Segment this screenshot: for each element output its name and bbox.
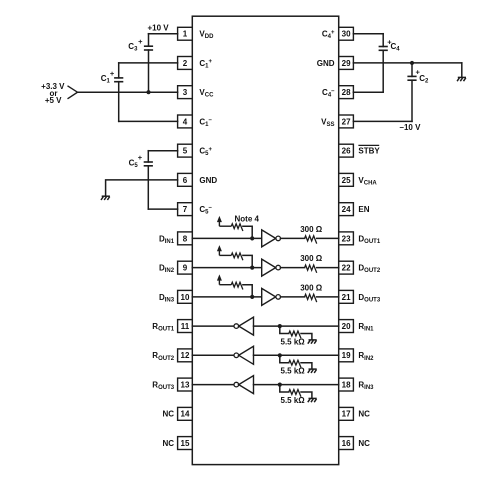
svg-text:DOUT2: DOUT2 xyxy=(358,264,380,275)
svg-text:20: 20 xyxy=(342,322,351,331)
node receiver 2 input junction xyxy=(278,353,282,357)
svg-text:15: 15 xyxy=(181,439,190,448)
svg-text:DOUT3: DOUT3 xyxy=(358,293,380,304)
svg-text:NC: NC xyxy=(163,410,175,419)
svg-text:NC: NC xyxy=(358,410,370,419)
svg-text:25: 25 xyxy=(342,176,351,185)
pull-up resistor (driver 3) xyxy=(219,284,231,286)
svg-text:26: 26 xyxy=(342,147,351,156)
pin 30 box xyxy=(339,27,354,40)
svg-text:RIN2: RIN2 xyxy=(358,351,374,362)
wire inverter output to 300ohm (driver 1) xyxy=(281,237,305,239)
wire inverter output to 300ohm (driver 2) xyxy=(281,267,305,269)
svg-text:4: 4 xyxy=(183,117,188,126)
svg-text:24: 24 xyxy=(342,205,351,214)
capacitor C4 plates xyxy=(379,47,388,51)
svg-text:Note 4: Note 4 xyxy=(235,215,260,224)
receiver buffer 3 xyxy=(234,376,254,394)
svg-text:GND: GND xyxy=(199,176,217,185)
wire R1 output wire pin 11 to bubble xyxy=(192,325,234,327)
svg-text:8: 8 xyxy=(183,234,188,243)
ground receiver 3 ground xyxy=(308,398,317,402)
svg-text:VSS: VSS xyxy=(321,117,334,128)
svg-text:17: 17 xyxy=(342,410,351,419)
svg-text:+: + xyxy=(138,153,143,162)
svg-text:1: 1 xyxy=(183,30,188,39)
pin 10 box xyxy=(178,290,193,303)
wire pin 30 to C4 top xyxy=(353,33,383,35)
wire C3 bottom lead to VCC net xyxy=(148,50,150,92)
pull-up arrow to VDD (driver 2) xyxy=(217,245,222,255)
svg-text:14: 14 xyxy=(181,410,190,419)
wire R2 output wire pin 12 to bubble xyxy=(192,354,234,356)
svg-text:5.5 kΩ: 5.5 kΩ xyxy=(281,396,306,405)
svg-text:+: + xyxy=(138,37,143,46)
svg-text:5: 5 xyxy=(183,147,188,156)
pin 18 box xyxy=(339,378,354,391)
wire C1 bottom lead to pin 4 net xyxy=(118,82,120,122)
svg-text:+10 V: +10 V xyxy=(148,23,170,32)
svg-text:2: 2 xyxy=(183,59,188,68)
wire 5.5k to ground (receiver 2) xyxy=(301,363,312,369)
svg-text:5.5 kΩ: 5.5 kΩ xyxy=(281,367,306,376)
pin 29 box xyxy=(339,57,354,70)
pull-up resistor (driver 2) xyxy=(219,254,231,256)
node driver 3 input junction xyxy=(250,295,254,299)
wire C4 top lead xyxy=(382,34,384,47)
capacitor C5 plates xyxy=(144,162,153,166)
wire pin 27 VSS wire xyxy=(353,120,412,122)
capacitor C2 plates xyxy=(407,76,416,80)
wire junction to 5.5k (receiver 3) xyxy=(280,385,289,392)
resistor 300 ohm (driver 3) xyxy=(305,294,317,302)
wire 300ohm to pin 21 xyxy=(317,296,339,298)
wire VCC supply wire to pin 3 xyxy=(78,91,178,93)
svg-text:13: 13 xyxy=(181,381,190,390)
svg-text:C1+: C1+ xyxy=(199,59,212,70)
wire C5 top lead xyxy=(147,151,149,162)
pin 21 box xyxy=(339,290,354,303)
wire inverter output to 300ohm (driver 3) xyxy=(281,296,305,298)
svg-text:RIN3: RIN3 xyxy=(358,381,374,392)
svg-text:DOUT1: DOUT1 xyxy=(358,234,380,245)
svg-text:VCC: VCC xyxy=(199,88,214,99)
wire C1 bottom to pin 4 xyxy=(119,120,178,122)
svg-text:EN: EN xyxy=(358,205,369,214)
ground receiver 1 ground xyxy=(308,340,317,344)
supply input arrow +3.3V/+5V xyxy=(68,86,78,99)
capacitor C1 label xyxy=(101,69,115,85)
pin 28 box xyxy=(339,86,354,99)
wire 5.5k to ground (receiver 3) xyxy=(301,392,312,398)
svg-text:GND: GND xyxy=(317,59,335,68)
pin 24 box xyxy=(339,203,354,216)
svg-text:18: 18 xyxy=(342,381,351,390)
svg-text:16: 16 xyxy=(342,439,351,448)
svg-text:21: 21 xyxy=(342,293,351,302)
svg-text:DIN1: DIN1 xyxy=(159,234,175,245)
svg-text:22: 22 xyxy=(342,264,351,273)
wire C5 bottom lead to pin 7 net xyxy=(147,166,149,209)
pin 16 box xyxy=(339,437,354,450)
svg-text:23: 23 xyxy=(342,234,351,243)
svg-text:3: 3 xyxy=(183,88,188,97)
wire C2 top lead xyxy=(411,63,413,77)
svg-text:9: 9 xyxy=(183,264,188,273)
wire C5 bottom to pin 7 xyxy=(148,208,177,210)
wire pin 1 to +10V node xyxy=(149,33,178,35)
capacitor C3 plates xyxy=(144,46,153,50)
node receiver 1 input junction xyxy=(278,324,282,328)
pin 11 box xyxy=(178,320,193,333)
pin 14 box xyxy=(178,407,193,420)
wire C4 bottom lead to pin 28 net xyxy=(382,50,384,92)
svg-text:VDD: VDD xyxy=(199,30,214,41)
capacitor C1 plates xyxy=(114,78,123,82)
pin 15 box xyxy=(178,437,193,450)
svg-text:C5–: C5– xyxy=(199,205,212,216)
pin 12 box xyxy=(178,349,193,362)
svg-text:C4–: C4– xyxy=(322,88,335,99)
resistor 5.5 kohm (receiver 1) xyxy=(289,331,301,338)
svg-text:RIN1: RIN1 xyxy=(358,322,374,333)
svg-text:5.5 kΩ: 5.5 kΩ xyxy=(281,337,306,346)
pull-up resistor (driver 1) xyxy=(219,225,231,227)
pin 6 box xyxy=(178,173,193,186)
wire receiver input wire pin 20 xyxy=(254,325,339,327)
svg-text:NC: NC xyxy=(358,439,370,448)
IC body U1 xyxy=(192,16,338,464)
wire junction to 5.5k (receiver 1) xyxy=(280,326,289,333)
inverter driver 1 xyxy=(262,230,281,247)
pin 2 box xyxy=(178,57,193,70)
pin 13 box xyxy=(178,378,193,391)
svg-text:C5+: C5+ xyxy=(199,147,212,158)
pin 26 box xyxy=(339,144,354,157)
capacitor C2 label xyxy=(416,67,429,84)
wire pin 5 to C5 top xyxy=(148,150,177,152)
svg-text:C4: C4 xyxy=(391,42,401,53)
node C3/VCC junction xyxy=(146,90,150,94)
wire junction to 5.5k (receiver 2) xyxy=(280,355,289,362)
inverter driver 3 xyxy=(262,288,281,305)
svg-text:ROUT2: ROUT2 xyxy=(152,351,174,362)
svg-text:+: + xyxy=(110,69,115,78)
capacitor C5 label xyxy=(129,153,143,169)
resistor 300 ohm (driver 2) xyxy=(305,265,317,273)
wire C3 top lead xyxy=(148,34,150,47)
svg-text:+5 V: +5 V xyxy=(45,96,62,105)
svg-text:7: 7 xyxy=(183,205,188,214)
wire receiver input wire pin 19 xyxy=(254,354,339,356)
wire ground drop right xyxy=(461,63,463,77)
pin 26 label STBY (active low) xyxy=(358,145,380,155)
pin 19 box xyxy=(339,349,354,362)
wire R3 output wire pin 13 to bubble xyxy=(192,384,234,386)
svg-text:ROUT1: ROUT1 xyxy=(152,322,174,333)
svg-text:NC: NC xyxy=(163,439,175,448)
wire C1 top lead xyxy=(118,63,120,78)
receiver buffer 1 xyxy=(234,317,254,335)
ground GND right xyxy=(457,77,466,81)
node driver 2 input junction xyxy=(250,266,254,270)
svg-text:300 Ω: 300 Ω xyxy=(300,225,323,234)
svg-text:29: 29 xyxy=(342,59,351,68)
svg-text:12: 12 xyxy=(181,351,190,360)
net label +3.3V or +5V xyxy=(41,82,65,105)
pin 17 box xyxy=(339,407,354,420)
svg-text:19: 19 xyxy=(342,351,351,360)
receiver buffer 2 xyxy=(234,346,254,364)
resistor 5.5 kohm (receiver 2) xyxy=(289,360,301,367)
pin 4 box xyxy=(178,115,193,128)
wire D3 input wire pin 10 to inverter xyxy=(192,296,261,298)
svg-text:C2: C2 xyxy=(419,74,429,85)
inverter driver 2 xyxy=(262,259,281,276)
pin 3 box xyxy=(178,86,193,99)
node C2/GND junction xyxy=(410,61,414,65)
resistor 300 ohm (driver 1) xyxy=(305,236,317,244)
pin 7 box xyxy=(178,203,193,216)
wire 300ohm to pin 22 xyxy=(317,267,339,269)
resistor 5.5 kohm (receiver 3) xyxy=(289,390,301,397)
pin 5 box xyxy=(178,144,193,157)
svg-text:C1–: C1– xyxy=(199,117,212,128)
svg-text:300 Ω: 300 Ω xyxy=(300,283,323,292)
svg-text:DIN2: DIN2 xyxy=(159,264,175,275)
wire pull-up to input node (driver 3) xyxy=(243,285,252,297)
wire pin 2 to C1 top xyxy=(119,62,178,64)
svg-text:STBY: STBY xyxy=(358,147,380,156)
pin 25 box xyxy=(339,173,354,186)
svg-text:28: 28 xyxy=(342,88,351,97)
pull-up arrow to VDD (driver 3) xyxy=(217,274,222,284)
wire D2 input wire pin 9 to inverter xyxy=(192,267,261,269)
node receiver 3 input junction xyxy=(278,382,282,386)
svg-text:6: 6 xyxy=(183,176,188,185)
pin 9 box xyxy=(178,261,193,274)
capacitor C4 label xyxy=(387,38,400,53)
ground GND left xyxy=(101,196,110,200)
pin 1 box xyxy=(178,27,193,40)
svg-text:DIN3: DIN3 xyxy=(159,293,175,304)
svg-text:27: 27 xyxy=(342,117,351,126)
node driver 1 input junction xyxy=(250,236,254,240)
wire 5.5k to ground (receiver 1) xyxy=(301,334,312,340)
svg-text:–10 V: –10 V xyxy=(400,123,422,132)
svg-text:VCHA: VCHA xyxy=(358,176,377,187)
svg-text:30: 30 xyxy=(342,30,351,39)
pull-up arrow to VDD (driver 1) xyxy=(217,216,222,226)
pin 23 box xyxy=(339,232,354,245)
wire pin 29 GND wire xyxy=(353,62,461,64)
pin 8 box xyxy=(178,232,193,245)
wire 300ohm to pin 23 xyxy=(317,237,339,239)
svg-text:C4+: C4+ xyxy=(322,30,335,41)
svg-text:ROUT3: ROUT3 xyxy=(152,381,174,392)
pin 22 box xyxy=(339,261,354,274)
wire C4 bottom to pin 28 xyxy=(353,91,383,93)
wire pull-up to input node (driver 2) xyxy=(243,255,252,267)
svg-text:300 Ω: 300 Ω xyxy=(300,254,323,263)
wire pull-up to input node (driver 1) xyxy=(243,226,252,238)
wire D1 input wire pin 8 to inverter xyxy=(192,237,261,239)
wire C2 bottom lead to VSS net xyxy=(411,80,413,121)
capacitor C3 label xyxy=(128,37,143,52)
svg-text:10: 10 xyxy=(181,293,190,302)
wire receiver input wire pin 18 xyxy=(254,384,339,386)
pin 27 box xyxy=(339,115,354,128)
ground receiver 2 ground xyxy=(308,369,317,373)
pin 20 box xyxy=(339,320,354,333)
wire pin 6 GND to ground xyxy=(106,180,178,196)
svg-text:11: 11 xyxy=(181,322,190,331)
svg-text:C3: C3 xyxy=(128,42,138,53)
